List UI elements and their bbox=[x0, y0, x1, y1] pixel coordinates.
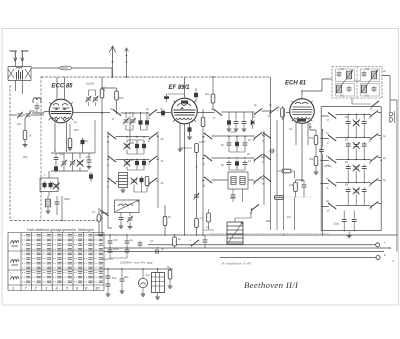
wire bbox=[121, 112, 172, 115]
switch mains bbox=[191, 240, 199, 247]
svg-text:5µ: 5µ bbox=[383, 178, 386, 182]
switch bbox=[254, 108, 262, 115]
wire bbox=[127, 140, 144, 154]
svg-text:462: 462 bbox=[365, 68, 370, 71]
switch bbox=[108, 178, 116, 185]
svg-text:0,1: 0,1 bbox=[200, 216, 204, 220]
svg-text:360p: 360p bbox=[64, 197, 70, 201]
trimmer C50 bbox=[353, 187, 360, 194]
resistor R1 bbox=[23, 131, 27, 140]
resistor R21 bbox=[201, 118, 205, 127]
ground bbox=[121, 190, 126, 192]
svg-text:b4: b4 bbox=[252, 138, 256, 142]
svg-text:0,1: 0,1 bbox=[150, 239, 154, 243]
ground bbox=[227, 129, 232, 131]
connector output bbox=[389, 118, 393, 122]
wire bbox=[113, 62, 127, 77]
wire tube pins bbox=[180, 77, 190, 235]
capacitor C57 bbox=[125, 248, 130, 254]
wire bbox=[107, 269, 109, 294]
trimmer C17 bbox=[124, 142, 131, 149]
trimmer C12 bbox=[86, 96, 92, 103]
capacitor C25 bbox=[119, 215, 124, 221]
tube ECC 85 bbox=[49, 84, 73, 123]
tube EF 89/1 bbox=[169, 85, 198, 124]
capacitor C56 bbox=[125, 239, 130, 245]
capacitor C4 bbox=[54, 155, 59, 161]
ground bbox=[155, 297, 160, 299]
svg-text:d3: d3 bbox=[202, 184, 206, 188]
IF can 1 capacitor bbox=[347, 86, 352, 92]
switch bbox=[214, 109, 222, 116]
wire row2 bbox=[203, 157, 264, 159]
capacitor C34 bbox=[235, 160, 239, 168]
switch bbox=[204, 133, 212, 140]
rail x=196.5 bbox=[196, 147, 198, 235]
svg-text:20n: 20n bbox=[102, 86, 106, 91]
svg-text:50µ: 50µ bbox=[112, 276, 117, 280]
wire bbox=[48, 171, 50, 196]
wire row1 bbox=[321, 136, 381, 139]
wire signal bbox=[73, 112, 110, 114]
switch bbox=[149, 156, 157, 163]
svg-text:l2: l2 bbox=[368, 184, 372, 188]
capacitor C1 bbox=[17, 70, 23, 80]
table row glyph bbox=[11, 260, 19, 266]
wire bbox=[142, 269, 144, 294]
dotted line bbox=[210, 233, 330, 235]
capacitor C38 bbox=[302, 183, 307, 189]
capacitor C40 bbox=[346, 119, 351, 125]
svg-text:72: 72 bbox=[92, 210, 95, 214]
IF can 1 capacitor bbox=[337, 71, 342, 77]
switch bbox=[108, 133, 116, 140]
switch bbox=[269, 107, 277, 114]
wire bbox=[352, 98, 371, 104]
trimmer C41 bbox=[353, 119, 360, 126]
switch bbox=[113, 109, 121, 116]
svg-text:b3: b3 bbox=[202, 140, 206, 144]
capacitor C21 bbox=[135, 159, 139, 167]
wire bbox=[195, 88, 197, 102]
resistor R14 bbox=[314, 157, 318, 166]
ground bbox=[106, 294, 111, 296]
svg-text:s: s bbox=[189, 238, 192, 242]
capacitor C19 bbox=[142, 142, 146, 150]
svg-text:h2: h2 bbox=[368, 116, 372, 120]
ground bbox=[234, 129, 239, 131]
IF can 2 capacitor bbox=[362, 71, 367, 77]
svg-text:46p: 46p bbox=[23, 155, 28, 159]
capacitor C65 bbox=[145, 119, 149, 127]
svg-text:b1: b1 bbox=[106, 140, 110, 144]
svg-text:M07: M07 bbox=[74, 128, 80, 132]
wire bbox=[233, 189, 243, 202]
resistor R8 bbox=[195, 144, 199, 153]
IF can 1 tuning arrow bbox=[336, 70, 353, 93]
svg-text:0: 0 bbox=[392, 259, 394, 263]
trimmer C44 bbox=[353, 142, 360, 149]
svg-text:A: A bbox=[384, 241, 386, 245]
svg-text:a4: a4 bbox=[252, 115, 256, 119]
rail x=165 bbox=[164, 205, 166, 235]
svg-text:2: 2 bbox=[34, 286, 38, 291]
capacitor C7 bbox=[87, 158, 92, 164]
wire bbox=[157, 269, 159, 297]
svg-text:5k: 5k bbox=[168, 215, 171, 219]
svg-text:30k: 30k bbox=[309, 157, 314, 161]
capacitor C32 bbox=[243, 141, 248, 147]
wire bbox=[127, 166, 144, 170]
svg-text:220/380V ~ and «PU» geig: 220/380V ~ and «PU» geig bbox=[119, 261, 153, 265]
svg-text:50k: 50k bbox=[309, 136, 314, 140]
capacitor C28 bbox=[234, 119, 239, 125]
resistor R15 bbox=[294, 183, 298, 192]
wire tube bottom pins bbox=[55, 122, 67, 151]
svg-text:L: L bbox=[44, 173, 46, 177]
wire bbox=[236, 112, 244, 129]
capacitor C46 bbox=[346, 164, 351, 170]
wire bbox=[270, 77, 272, 109]
svg-text:4: 4 bbox=[56, 286, 59, 291]
svg-text:50µ: 50µ bbox=[124, 275, 129, 279]
svg-text:1: 1 bbox=[12, 286, 14, 291]
wire bbox=[189, 134, 191, 137]
resistor R4 bbox=[100, 89, 104, 98]
rails bbox=[203, 109, 277, 235]
svg-text:30µ: 30µ bbox=[84, 139, 89, 143]
wire bbox=[121, 269, 123, 291]
svg-text:k2: k2 bbox=[368, 161, 372, 165]
switch bbox=[204, 177, 212, 184]
wire bus3 bbox=[104, 251, 384, 253]
wire bbox=[89, 90, 96, 106]
switch bbox=[204, 155, 212, 162]
svg-text:a1: a1 bbox=[111, 117, 115, 121]
coil L2 bbox=[45, 199, 50, 207]
wire tube left pin bbox=[32, 112, 49, 114]
capacitor C39 bbox=[269, 149, 275, 154]
wire bbox=[310, 123, 323, 235]
wire bbox=[348, 194, 364, 206]
svg-text:2µ: 2µ bbox=[383, 134, 386, 138]
capacitor C31 bbox=[235, 140, 239, 148]
switch bbox=[263, 132, 271, 139]
trimmer C27 bbox=[194, 193, 200, 200]
capacitor C24 bbox=[140, 176, 144, 184]
ground bbox=[23, 145, 28, 147]
svg-text:4µ: 4µ bbox=[326, 131, 329, 135]
resistor R2 bbox=[68, 139, 72, 148]
wire bbox=[51, 124, 95, 171]
wire bbox=[56, 153, 89, 171]
svg-text:8: 8 bbox=[85, 286, 88, 291]
svg-text:g1: g1 bbox=[267, 114, 271, 118]
svg-text:0n: 0n bbox=[269, 103, 272, 107]
capacitor C18 bbox=[135, 142, 139, 150]
switch bbox=[254, 176, 262, 183]
svg-text:3n: 3n bbox=[161, 247, 164, 251]
capacitor C11 bbox=[55, 200, 60, 206]
ground bbox=[168, 286, 173, 288]
ground bbox=[314, 172, 319, 174]
IF transformer dashed box bbox=[332, 67, 382, 99]
svg-text:n1: n1 bbox=[369, 107, 373, 111]
wire bbox=[229, 112, 253, 129]
capacitor C64 bbox=[139, 119, 143, 127]
coil bbox=[231, 177, 236, 185]
switch bbox=[328, 112, 336, 119]
switch bbox=[328, 157, 336, 164]
capacitor C58 bbox=[138, 241, 143, 247]
svg-text:10µ: 10µ bbox=[17, 122, 22, 126]
table row glyph bbox=[11, 277, 19, 280]
svg-text:EF 89/1: EF 89/1 bbox=[169, 85, 191, 91]
resistor R3 bbox=[89, 173, 93, 181]
wire bbox=[48, 196, 62, 221]
svg-text:462: 462 bbox=[340, 95, 345, 98]
svg-text:360p: 360p bbox=[230, 196, 236, 200]
svg-text:«F» Anschluß an «T» PU: «F» Anschluß an «T» PU bbox=[221, 262, 251, 266]
capacitor C49 bbox=[346, 187, 351, 193]
trimmer C5 bbox=[61, 160, 67, 167]
svg-text:3: 3 bbox=[45, 286, 48, 291]
wire bbox=[235, 208, 252, 222]
capacitor C45 bbox=[362, 142, 367, 148]
switch bbox=[108, 156, 116, 163]
svg-text:64: 64 bbox=[345, 160, 348, 164]
svg-text:i1: i1 bbox=[326, 141, 329, 145]
IF can 2 capacitor bbox=[372, 86, 377, 92]
svg-text:40µ/380V: 40µ/380V bbox=[102, 257, 113, 261]
coil L1 bbox=[16, 67, 22, 68]
switch bbox=[254, 132, 262, 139]
switch bbox=[328, 135, 336, 142]
table grid bbox=[8, 233, 104, 291]
svg-text:41: 41 bbox=[161, 159, 164, 163]
svg-text:11p500: 11p500 bbox=[86, 82, 95, 86]
dashed RF box left bbox=[40, 76, 42, 221]
wire row2 bbox=[108, 158, 158, 161]
IF can 1 coil bbox=[336, 85, 341, 93]
svg-text:50k: 50k bbox=[266, 219, 271, 223]
capacitor C30 bbox=[227, 141, 232, 147]
ladder rails bbox=[108, 116, 158, 228]
svg-text:c1: c1 bbox=[106, 163, 110, 167]
svg-text:an: an bbox=[74, 121, 77, 124]
svg-text:f1: f1 bbox=[261, 139, 265, 143]
capacitor C36 bbox=[231, 193, 236, 199]
capacitor C68 bbox=[81, 138, 85, 146]
tube pin stubs bbox=[49, 101, 313, 122]
dotted line bbox=[270, 196, 312, 198]
svg-text:ECC 85: ECC 85 bbox=[52, 84, 74, 90]
svg-text:20p: 20p bbox=[86, 155, 91, 159]
svg-text:i2: i2 bbox=[368, 139, 372, 143]
capacitor C55 bbox=[108, 248, 113, 254]
wire bbox=[167, 94, 185, 102]
svg-text:2µ: 2µ bbox=[383, 156, 386, 160]
resistor R19 bbox=[168, 270, 172, 279]
capacitor C35 bbox=[243, 160, 248, 166]
wire bbox=[283, 106, 290, 120]
antenna bbox=[10, 51, 29, 62]
dashed tuner box bottom bbox=[10, 220, 99, 222]
svg-text:b2: b2 bbox=[147, 139, 151, 143]
capacitor C29 bbox=[242, 119, 247, 125]
svg-text:50µ: 50µ bbox=[205, 92, 210, 96]
diode D1 bbox=[251, 120, 254, 125]
wire bbox=[275, 109, 295, 230]
capacitor C67 bbox=[203, 238, 208, 244]
IF can 2 coil bbox=[361, 85, 366, 93]
wire bbox=[110, 235, 127, 258]
trimmer C2 bbox=[17, 112, 23, 119]
svg-text:42: 42 bbox=[161, 181, 164, 185]
output transformer T2 bbox=[152, 273, 165, 293]
svg-text:NF: NF bbox=[277, 106, 281, 110]
trimmer C15 bbox=[123, 118, 129, 125]
wire bbox=[180, 147, 192, 148]
capacitor C52 bbox=[342, 217, 347, 223]
capacitor C53 bbox=[352, 217, 357, 223]
svg-text:46: 46 bbox=[247, 152, 250, 156]
svg-text:4µ: 4µ bbox=[326, 177, 329, 181]
svg-text:e1: e1 bbox=[99, 217, 103, 221]
wire row3 bbox=[203, 179, 264, 181]
wire right edge bbox=[390, 100, 397, 252]
wire row1 bbox=[203, 135, 264, 137]
connector output bbox=[389, 112, 393, 116]
capacitor C69 bbox=[54, 165, 58, 173]
ground bbox=[242, 129, 247, 131]
wire bbox=[101, 213, 130, 229]
svg-text:a2: a2 bbox=[147, 116, 151, 120]
svg-text:c4: c4 bbox=[252, 160, 256, 164]
IF can unit boxes bbox=[336, 69, 380, 96]
capacitor C42 bbox=[362, 119, 367, 125]
ground bbox=[87, 167, 92, 169]
resistor R10 bbox=[211, 94, 215, 103]
capacitor C62 bbox=[120, 277, 125, 283]
wire bbox=[229, 137, 245, 153]
svg-text:462: 462 bbox=[365, 95, 370, 98]
wire bbox=[15, 62, 22, 67]
wire bbox=[24, 140, 26, 145]
trimmer C70 bbox=[77, 159, 84, 166]
wire bbox=[89, 120, 95, 182]
svg-text:0µ: 0µ bbox=[211, 107, 214, 111]
svg-text:25: 25 bbox=[131, 141, 134, 145]
switch bbox=[254, 154, 262, 161]
resistor R16 bbox=[275, 196, 284, 200]
capacitor C60 bbox=[106, 274, 111, 280]
svg-text:8n: 8n bbox=[309, 125, 312, 129]
svg-text:5p: 5p bbox=[221, 143, 224, 147]
resistor R7 bbox=[163, 217, 167, 226]
ground bbox=[187, 137, 192, 139]
wire tube top pins bbox=[57, 77, 65, 100]
svg-text:0,1: 0,1 bbox=[289, 127, 293, 131]
tube ECH 81 bbox=[285, 80, 314, 123]
resistor R20 bbox=[194, 91, 198, 99]
switch bbox=[370, 110, 378, 117]
wire row4 bbox=[321, 204, 381, 207]
svg-text:150µ: 150µ bbox=[333, 222, 339, 226]
wire bbox=[355, 80, 361, 82]
capacitor C51 bbox=[362, 187, 367, 193]
capacitor C48 bbox=[362, 164, 367, 170]
ground bbox=[347, 236, 352, 238]
svg-text:l1: l1 bbox=[326, 186, 329, 190]
svg-text:6: 6 bbox=[76, 286, 79, 291]
capacitor C43 bbox=[346, 142, 351, 148]
wire bbox=[104, 268, 173, 270]
box outline bbox=[321, 107, 381, 231]
svg-text:1k: 1k bbox=[178, 237, 181, 241]
svg-text:h1: h1 bbox=[326, 118, 330, 122]
resistor R9 bbox=[195, 219, 199, 228]
coil L5 bbox=[33, 98, 41, 103]
svg-text:10: 10 bbox=[95, 286, 100, 291]
capacitor C37 bbox=[319, 147, 324, 153]
terminal E bbox=[376, 256, 380, 260]
svg-text:1k: 1k bbox=[29, 134, 32, 138]
capacitor C14 bbox=[161, 109, 165, 117]
trimmer C20 bbox=[124, 159, 131, 166]
wire bbox=[169, 269, 171, 286]
switch bbox=[328, 203, 336, 210]
dashed tuner box left bbox=[9, 85, 11, 221]
node label oval bbox=[60, 66, 73, 70]
svg-text:5: 5 bbox=[66, 286, 69, 291]
wire bbox=[98, 208, 100, 235]
svg-text:08000: 08000 bbox=[61, 67, 68, 70]
wire row1 bbox=[108, 135, 158, 138]
wire bbox=[277, 171, 295, 178]
oscillator coil box bbox=[40, 178, 58, 192]
wire bbox=[348, 171, 364, 183]
input filter bbox=[8, 67, 31, 81]
resistor R6 bbox=[145, 177, 149, 186]
svg-text:462: 462 bbox=[340, 68, 345, 71]
switch bbox=[149, 178, 157, 185]
wire bbox=[16, 68, 113, 94]
meter M1 bbox=[138, 278, 147, 287]
switch bbox=[100, 210, 108, 217]
trimmer C10 bbox=[53, 182, 60, 189]
switch bbox=[370, 133, 378, 140]
svg-text:0µ: 0µ bbox=[254, 103, 257, 107]
wire bbox=[203, 209, 214, 230]
svg-text:10: 10 bbox=[248, 138, 251, 142]
IF transformer T1 bbox=[228, 172, 248, 189]
wire bbox=[348, 115, 364, 138]
svg-text:0µ: 0µ bbox=[146, 107, 149, 111]
wire row0 bbox=[321, 113, 381, 117]
svg-text:E: E bbox=[384, 253, 386, 257]
capacitor C54 bbox=[108, 239, 113, 245]
capacitor C61 bbox=[106, 282, 111, 288]
switch bbox=[251, 204, 259, 211]
connector J1 bbox=[97, 214, 101, 222]
wire bbox=[344, 211, 354, 236]
switch bbox=[263, 175, 271, 182]
ground bbox=[128, 227, 133, 229]
svg-text:3M2p: 3M2p bbox=[29, 109, 36, 113]
svg-text:4000: 4000 bbox=[113, 247, 119, 251]
trimmer C26 bbox=[127, 216, 133, 223]
